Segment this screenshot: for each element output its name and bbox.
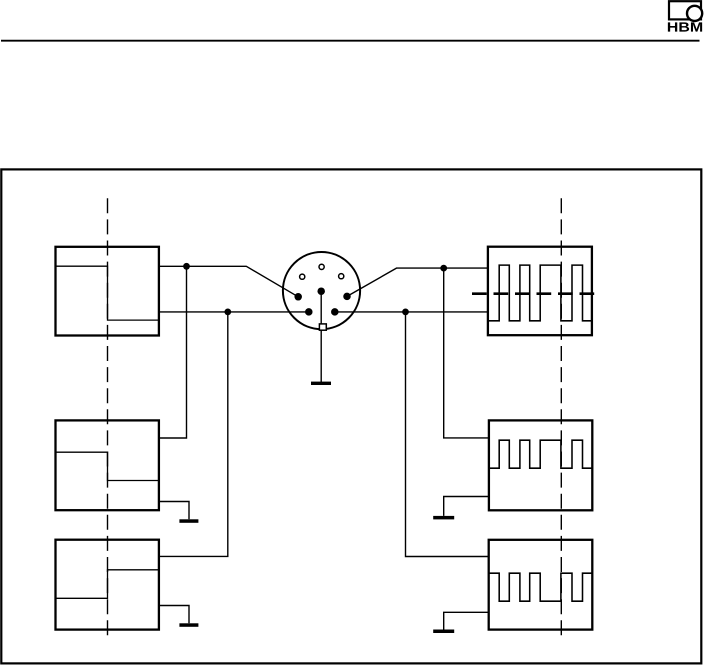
wire drop to box bottom-left [159,312,228,557]
wire top-right (right pin to box TR, with bend) [347,268,488,296]
signal step in box bottom-left [56,570,159,599]
junction dot lower-right [402,309,409,316]
construction line left (dashed) [107,198,109,637]
HBM logo text [668,22,702,31]
ground wire of box bottom-right [444,612,489,629]
construction line right (dashed) [560,198,562,637]
ground wire of box middle-left [159,502,189,520]
HBM logo rectangle [669,1,701,19]
connector ground bar [311,382,331,385]
inverted pulse-train signal in box bottom-right [489,573,593,601]
junction dot top-left [183,263,190,270]
box middle-right (output pulse train) [489,420,592,510]
HBM logo circle [687,6,702,21]
box bottom-left (transducer signal 3) [56,540,159,630]
pin top-center (unused) [319,264,324,269]
pin lower-right [331,308,339,316]
pulse-train signal in box middle-right [489,440,592,468]
ground bar of box bottom-left [179,623,198,627]
junction dot lower-left [224,309,231,316]
wire lower-left (box TL to lower-left pin) [159,311,309,313]
box top-left (transducer signal 1) [56,247,159,336]
zero line (horizontal dashed) of top-right signal [472,292,597,295]
box top-right (output square-wave) [488,247,592,336]
pin lower-left [305,308,313,316]
connector keyway notch [319,324,326,330]
pin center (shield) [317,287,325,295]
ground wire of box middle-right [444,497,489,516]
connector housing circle [283,252,360,329]
pin upper-right (unused) [339,274,344,279]
wire top-left (box TL to left pin, with bend) [159,266,298,297]
pin upper-left (unused) [300,274,305,279]
box middle-left (transducer signal 2) [56,420,159,510]
ground bar of box bottom-right [433,630,454,634]
box bottom-right (output inverted pulse train) [489,540,593,630]
header rule [1,40,700,42]
diagram frame [1,169,701,663]
pin left [294,293,302,301]
square-wave signal in box top-right [488,265,592,321]
ground bar of box middle-right [433,516,454,520]
signal step in box middle-left [56,452,159,480]
ground wire of box bottom-left [159,606,189,624]
wire lower-right (lower-right pin to box TR) [335,311,488,313]
signal step in box top-left [56,266,159,320]
junction dot top-right [440,265,447,272]
pin right [343,293,351,301]
ground bar of box middle-left [179,519,198,523]
connector shield wire (center pin to ground) [320,291,322,383]
wire drop to box middle-left [159,266,187,438]
wire drop to box middle-right [444,268,489,438]
wire drop to box bottom-right [406,312,489,557]
